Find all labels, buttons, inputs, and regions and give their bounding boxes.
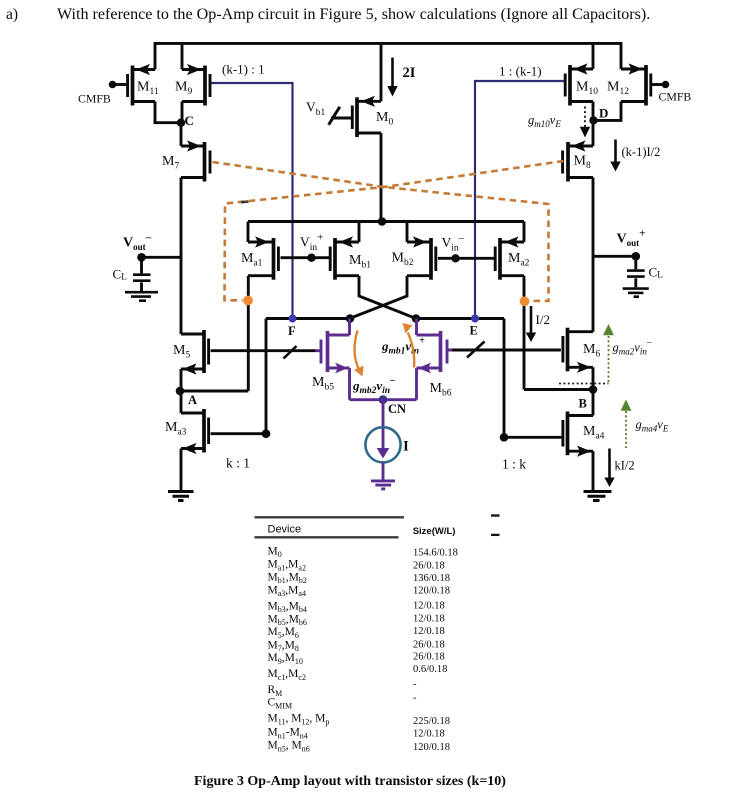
wire F-line bbox=[266, 317, 350, 320]
svg-text:k : 1: k : 1 bbox=[226, 456, 250, 471]
svg-text:1 : k: 1 : k bbox=[502, 457, 526, 472]
transistor Ma3 bbox=[181, 409, 209, 453]
node C bbox=[177, 119, 185, 127]
svg-text:A: A bbox=[188, 393, 197, 407]
svg-text:120/0.18: 120/0.18 bbox=[413, 742, 450, 753]
node F dot blue bbox=[289, 315, 297, 323]
svg-text:E: E bbox=[470, 324, 478, 338]
wire Mb5 source to CN rail bbox=[348, 368, 351, 400]
current arrow I/2 bbox=[530, 306, 533, 335]
svg-text:kI/2: kI/2 bbox=[615, 459, 635, 473]
node Vout+ dot bbox=[632, 252, 641, 261]
table size column bbox=[413, 548, 458, 753]
wire node C to M7 bbox=[180, 123, 183, 146]
current arrow 2I bbox=[391, 58, 394, 88]
wire Mb2 source stub bbox=[406, 222, 409, 243]
ground CL right bbox=[623, 289, 649, 297]
wire Ma4 gate lead bbox=[504, 436, 563, 439]
svg-text:C: C bbox=[185, 113, 194, 128]
node E-line junction dot bbox=[412, 314, 421, 323]
wire tail rail bbox=[248, 220, 524, 223]
wire F to Ma3 gate bbox=[265, 319, 268, 434]
wire Vout+ to right branch bbox=[593, 255, 636, 258]
svg-text:136/0.18: 136/0.18 bbox=[413, 573, 450, 584]
wire Ma4 source to ground bbox=[592, 451, 595, 490]
transistor M6 bbox=[563, 328, 593, 372]
ground current source bbox=[371, 481, 395, 489]
ground CL left bbox=[125, 292, 158, 301]
wire Ma2 drain down to node B line bbox=[523, 276, 526, 390]
wire node B to Ma2 drain bbox=[524, 388, 593, 391]
svg-text:B: B bbox=[579, 396, 587, 410]
wire M5 drain to node A bbox=[180, 369, 183, 391]
svg-text:-: - bbox=[413, 679, 417, 690]
svg-text:F: F bbox=[288, 324, 296, 338]
wire Mb5 drain to F junction bbox=[348, 319, 351, 336]
svg-text:CMFB: CMFB bbox=[78, 91, 111, 105]
svg-text:26/0.18: 26/0.18 bbox=[413, 560, 445, 571]
dashed net dark dash detail bbox=[241, 200, 249, 203]
wire M8 drain down right branch bbox=[592, 178, 595, 332]
table stray dash 1 bbox=[491, 514, 500, 516]
wire M6 drain to node B bbox=[592, 367, 595, 389]
wire M7 drain down left branch bbox=[180, 178, 183, 335]
svg-text:1 : (k-1): 1 : (k-1) bbox=[499, 64, 542, 79]
capacitor CL left bbox=[133, 257, 151, 291]
transistor M9 bbox=[182, 66, 210, 106]
wire Mb2 drain cross to F-line bbox=[350, 276, 408, 319]
transistor Ma4 bbox=[563, 412, 593, 456]
wire node A to Ma3 bbox=[180, 391, 183, 413]
node A bbox=[176, 387, 185, 396]
node CMFB dot left bbox=[109, 81, 117, 89]
wire Vin- gate net bbox=[438, 257, 495, 260]
svg-text:Size(W/L): Size(W/L) bbox=[413, 526, 456, 537]
transistor Mb6 bbox=[417, 331, 453, 372]
wire VDD top rail bbox=[155, 43, 621, 69]
current arrow (k-1)I/2 bbox=[614, 140, 617, 164]
label chopper slash left bbox=[284, 346, 297, 359]
transistor M0 bbox=[331, 97, 381, 137]
wire Mb6 source to CN rail bbox=[415, 368, 418, 400]
svg-text:Device: Device bbox=[268, 524, 302, 536]
transistor Mb1 bbox=[330, 238, 359, 280]
node Ma4 gate junction bbox=[500, 433, 509, 442]
node F-line junction dot bbox=[346, 314, 355, 323]
wire M10 drain to node D bbox=[592, 102, 595, 121]
svg-text:a): a) bbox=[6, 6, 18, 23]
wire E-line bbox=[416, 317, 504, 320]
node B bbox=[589, 385, 598, 394]
wire M12 drain to node D bbox=[594, 102, 622, 121]
node tail junction bbox=[378, 217, 387, 226]
wire Vin+ gate net bbox=[281, 256, 331, 259]
table stray dash 2 bbox=[491, 534, 500, 536]
wire M9 drain to node C bbox=[181, 102, 184, 123]
svg-text:CMFB: CMFB bbox=[659, 90, 692, 104]
table mid rule bbox=[255, 536, 399, 538]
wire M10 source stub bbox=[592, 42, 595, 69]
svg-text:D: D bbox=[599, 105, 608, 120]
table device column bbox=[268, 545, 330, 753]
node CN bbox=[379, 395, 388, 404]
label chopper slash right bbox=[467, 342, 485, 358]
transistor Ma1 bbox=[248, 238, 278, 280]
wire M11 drain to node C bbox=[155, 102, 181, 123]
transistor M12 bbox=[621, 65, 662, 106]
svg-text:12/0.18: 12/0.18 bbox=[413, 626, 445, 637]
svg-text:I/2: I/2 bbox=[536, 312, 550, 327]
orange arc arrow left bbox=[354, 331, 358, 369]
wire Mb1 drain cross to E-line bbox=[359, 276, 416, 319]
wire dotted black to node B region bbox=[559, 383, 609, 385]
transistor M8 bbox=[563, 142, 593, 182]
current source I bbox=[382, 400, 385, 428]
svg-text:I: I bbox=[403, 439, 409, 455]
current arrow kI/2 bbox=[608, 449, 611, 480]
wire blue net M9 gate to node F bbox=[211, 83, 292, 319]
svg-text:(k-1)I/2: (k-1)I/2 bbox=[622, 145, 661, 159]
current arrow gma2vin- green dotted bbox=[608, 336, 610, 384]
svg-text:12/0.18: 12/0.18 bbox=[413, 728, 445, 739]
wire blue net M10 gate to node E bbox=[475, 81, 564, 319]
transistor Mb2 bbox=[407, 238, 436, 280]
wire I source to ground bbox=[382, 462, 385, 480]
svg-text:M11, M12, Mp: M11, M12, Mp bbox=[268, 713, 330, 727]
wire Mb1 source stub bbox=[358, 222, 361, 243]
current arrow gm10vE dotted bbox=[584, 107, 586, 128]
wire Ma3 source to ground bbox=[180, 449, 183, 491]
wire Mb6 drain to E junction bbox=[415, 319, 418, 336]
svg-text:12/0.18: 12/0.18 bbox=[413, 600, 445, 611]
svg-text:M7,M8: M7,M8 bbox=[268, 639, 299, 653]
wire M0 source stub bbox=[380, 42, 383, 101]
transistor M10 bbox=[565, 65, 593, 106]
wire Ma3 gate lead bbox=[211, 432, 266, 435]
dashed net M7 gate to Ma2 drain bbox=[213, 162, 549, 301]
wire node A to Ma1 drain bbox=[180, 390, 248, 393]
wire Ma1 source stub bbox=[247, 222, 250, 243]
transistor M11 bbox=[115, 66, 155, 106]
svg-text:12/0.18: 12/0.18 bbox=[413, 613, 445, 624]
wire M6 gate to Mb6 gate bbox=[449, 349, 561, 352]
wire M0 drain to tail node bbox=[380, 133, 383, 222]
svg-text:M5,M6: M5,M6 bbox=[268, 626, 299, 640]
svg-text:-: - bbox=[413, 693, 417, 704]
wire Vout- to left branch bbox=[142, 256, 182, 259]
node Vout- dot bbox=[137, 253, 146, 262]
orange arc arrow right bbox=[408, 333, 414, 368]
ground left branch bbox=[168, 492, 194, 501]
node orange dot right (Ma2 drain) bbox=[520, 296, 530, 306]
wire Ma1 drain down to node A line bbox=[247, 276, 250, 391]
node E dot blue bbox=[471, 315, 479, 323]
ground right branch bbox=[584, 492, 612, 501]
svg-text:Figure 3 Op-Amp layout with tr: Figure 3 Op-Amp layout with transistor s… bbox=[194, 774, 506, 789]
wire M9 source stub bbox=[181, 42, 184, 70]
transistor M7 bbox=[181, 142, 210, 182]
svg-text:225/0.18: 225/0.18 bbox=[413, 716, 450, 727]
svg-text:(k-1) : 1: (k-1) : 1 bbox=[222, 62, 265, 77]
current arrow gma4vE green dotted bbox=[625, 411, 627, 448]
node D bbox=[589, 116, 597, 124]
svg-text:154.6/0.18: 154.6/0.18 bbox=[413, 548, 458, 559]
label Vb1 slash bbox=[329, 107, 340, 125]
node Vin+ dot bbox=[307, 254, 315, 262]
capacitor CL right bbox=[627, 256, 645, 287]
wire node B to Ma4 bbox=[592, 390, 595, 416]
wire CN rail bbox=[350, 398, 417, 401]
svg-text:26/0.18: 26/0.18 bbox=[413, 652, 445, 663]
svg-text:120/0.18: 120/0.18 bbox=[413, 586, 450, 597]
node Vin- dot bbox=[451, 254, 459, 262]
transistor M5 bbox=[181, 330, 209, 373]
wire E to Ma4 gate bbox=[503, 319, 506, 438]
svg-text:26/0.18: 26/0.18 bbox=[413, 639, 445, 650]
dashed net M8 gate to Ma1 drain bbox=[225, 161, 564, 300]
table top rule bbox=[255, 516, 405, 518]
transistor Ma2 bbox=[495, 238, 524, 280]
svg-text:0.6/0.18: 0.6/0.18 bbox=[413, 664, 447, 675]
wire node D to M8 bbox=[592, 120, 595, 146]
wire M5 gate to Mb5 gate bbox=[211, 349, 316, 352]
wire Ma2 source stub bbox=[523, 222, 526, 243]
svg-text:With reference to the Op-Amp c: With reference to the Op-Amp circuit in … bbox=[57, 6, 650, 23]
transistor Mb5 bbox=[316, 331, 350, 372]
svg-text:2I: 2I bbox=[403, 65, 416, 81]
node Ma3 gate junction bbox=[262, 429, 271, 438]
node CMFB dot right bbox=[662, 81, 670, 89]
node orange dot left (Ma1 drain) bbox=[243, 296, 253, 306]
svg-text:CN: CN bbox=[388, 402, 406, 416]
